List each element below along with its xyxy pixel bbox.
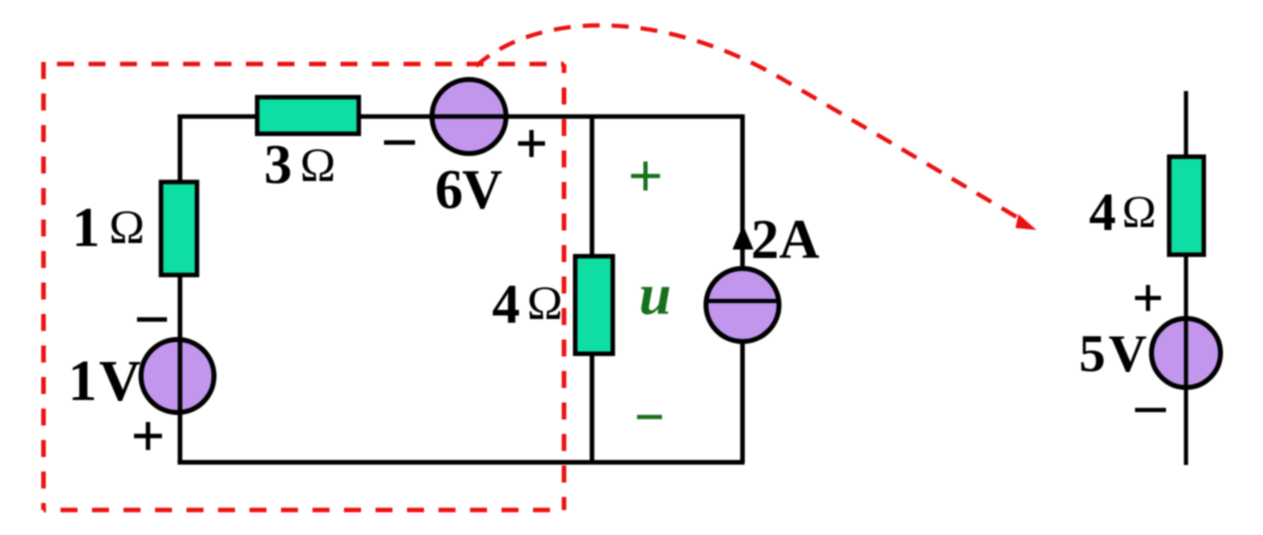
wire: equivalent-circuit vertical — [1184, 91, 1188, 465]
green plus sign (u polarity) — [631, 162, 660, 191]
wire: right branch upper segment — [740, 115, 745, 269]
plus sign above 5V — [1135, 285, 1161, 311]
svg-text:3: 3 — [264, 134, 292, 196]
dashed selection box left edge — [41, 62, 46, 510]
svg-text:2A: 2A — [751, 209, 820, 271]
svg-text:Ω: Ω — [527, 277, 563, 330]
minus sign left of 6V — [384, 140, 415, 144]
dashed selection box top edge — [44, 62, 565, 67]
arrowhead of dashed arrow — [1016, 214, 1037, 230]
svg-text:Ω: Ω — [1122, 186, 1156, 237]
dashed arrow curve to equivalent circuit — [476, 25, 1020, 219]
dashed selection box bottom edge — [44, 508, 565, 513]
svg-text:u: u — [639, 262, 671, 327]
svg-text:4: 4 — [1089, 182, 1116, 242]
minus sign below 5V — [1135, 408, 1166, 412]
dashed selection box right edge — [562, 64, 567, 510]
wire: left vertical branch — [178, 115, 183, 464]
svg-text:4: 4 — [492, 274, 520, 336]
resistor 4 ohm (equivalent) — [1169, 157, 1204, 255]
resistor 1 ohm — [161, 182, 197, 275]
voltage source 1V circle — [141, 340, 214, 413]
current source 2A circle — [706, 269, 779, 342]
wire: middle vertical branch — [590, 115, 595, 464]
current source 2A arrow head — [733, 225, 754, 250]
plus sign right of 6V — [518, 130, 545, 157]
minus sign above 1V — [137, 317, 167, 321]
svg-text:Ω: Ω — [109, 201, 145, 254]
voltage source 6V circle — [432, 80, 506, 154]
svg-text:1V: 1V — [68, 348, 143, 413]
voltage source 5V circle — [1152, 319, 1221, 388]
svg-text:5V: 5V — [1079, 325, 1150, 383]
wire: right branch lower segment — [740, 342, 745, 463]
wire: bottom horizontal — [178, 460, 745, 465]
current source 2A bar — [707, 299, 779, 303]
svg-text:6V: 6V — [435, 159, 502, 221]
resistor 4 ohm (middle) — [575, 256, 613, 354]
plus sign below 1V — [134, 422, 162, 450]
green minus sign (u polarity) — [637, 415, 662, 419]
resistor 3 ohm — [257, 97, 359, 134]
wire: top horizontal — [178, 114, 745, 119]
svg-text:Ω: Ω — [300, 139, 336, 192]
svg-text:1: 1 — [72, 197, 100, 259]
